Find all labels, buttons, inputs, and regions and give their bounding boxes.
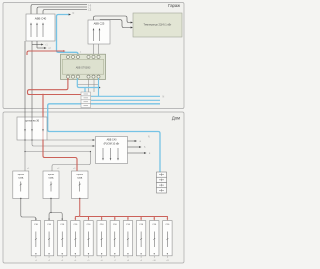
wire red drop 154.25 xyxy=(153,216,155,221)
wire red drop 114.8 xyxy=(114,216,116,221)
svg-text:щиток на 36: щиток на 36 xyxy=(25,120,40,123)
svg-text:N: N xyxy=(73,12,75,15)
wire tap arrow 2 xyxy=(37,41,51,50)
wire C to row1 xyxy=(21,199,37,221)
branch breaker row box 6 xyxy=(97,221,106,262)
wire blue bus 3 xyxy=(91,96,165,101)
wire red drop 141.1 xyxy=(140,216,142,221)
svg-text:6кВА: 6кВА xyxy=(18,176,24,179)
frame page 1 (Гараж) xyxy=(3,3,184,109)
branch breaker row box 4 xyxy=(71,221,80,262)
branch breaker row box 7 xyxy=(110,221,119,262)
УЗМ out arrow 2 xyxy=(128,146,147,149)
wire red switch output to house xyxy=(28,78,81,117)
breaker QF2 АВВ С25 xyxy=(88,20,110,44)
wire red E distribution xyxy=(75,199,169,221)
wire QF2 to heater line A xyxy=(94,16,134,24)
feeder breaker C xyxy=(13,171,29,199)
wire blue bus 2 xyxy=(91,95,160,97)
svg-text:6кВА: 6кВА xyxy=(48,176,54,179)
switch SA1 АВВ ОТ63Ф3 xyxy=(61,54,106,79)
svg-text:6кВА: 6кВА xyxy=(77,176,83,179)
branch breaker row box 1 xyxy=(31,221,40,262)
wire N blue from switch to top xyxy=(57,12,79,57)
branch breaker row box 10 xyxy=(150,221,159,262)
wire QF2 down to switch b xyxy=(98,44,100,56)
wire bus L3 xyxy=(43,9,92,14)
terminal block X2 xyxy=(157,172,167,193)
svg-text:АВВ С40: АВВ С40 xyxy=(35,17,47,21)
wire L red feed to switch xyxy=(27,50,82,55)
wire blue right stub to bus xyxy=(98,78,100,96)
wire bus L2 xyxy=(37,6,92,14)
feeder breaker D xyxy=(43,171,59,199)
wire house red L to feeder E xyxy=(42,139,77,171)
wire red drop 127.95 xyxy=(127,216,129,221)
panel box ЩР house xyxy=(17,117,47,140)
svg-text:АВВ С40: АВВ С40 xyxy=(107,139,118,142)
branch breaker row box 8 xyxy=(123,221,132,262)
svg-text:АВВ С25: АВВ С25 xyxy=(94,22,105,26)
wire D to rows 2-3 xyxy=(48,199,63,221)
wire tap arrow 1 xyxy=(32,44,48,47)
wire house N to УЗМ xyxy=(31,139,95,147)
УЗМ out arrow 1 xyxy=(128,140,142,143)
branch breaker row box 5 xyxy=(84,221,93,262)
wire house L1 to УЗМ xyxy=(47,139,95,141)
label above C xyxy=(27,168,30,170)
УЗМ out arrow 3 xyxy=(128,152,152,155)
heater load Температур xyxy=(133,13,182,37)
branch breaker row box 9 xyxy=(136,221,145,262)
wire feed down 2 xyxy=(31,41,33,117)
wire blue bus N with drop to house xyxy=(48,104,160,172)
wire QF2 down to switch a xyxy=(93,44,95,56)
branch breaker row box 3 xyxy=(58,221,67,262)
svg-text:щиток: щиток xyxy=(48,174,54,176)
branch breaker row box 11 xyxy=(163,221,172,262)
wire QF2 to heater line B xyxy=(100,20,133,29)
svg-text:АВВ ОТ63Ф3: АВВ ОТ63Ф3 xyxy=(76,66,91,69)
svg-text:Температур 22(4) 1 кВт: Температур 22(4) 1 кВт xyxy=(144,22,173,26)
terminal block X1 xyxy=(81,92,91,108)
wire bus L1 xyxy=(31,4,92,14)
frame page 2 (Дом) xyxy=(3,112,184,263)
wire blue jog below switch xyxy=(77,78,100,92)
wire red drop 101.65 xyxy=(101,216,103,221)
breaker QF1 АВВ С40 xyxy=(26,14,55,41)
svg-text:щиток: щиток xyxy=(77,174,83,176)
branch breaker row box 2 xyxy=(44,221,53,262)
wire red drop 88.5 xyxy=(88,216,90,221)
svg-text:(Р)УЗМ 10 кВт: (Р)УЗМ 10 кВт xyxy=(104,142,121,145)
svg-text:N: N xyxy=(163,96,165,99)
УЗМ box xyxy=(96,137,128,164)
svg-text:Дом: Дом xyxy=(172,115,180,120)
label above E xyxy=(73,168,76,170)
svg-text:щиток: щиток xyxy=(18,174,24,176)
feeder breaker E xyxy=(72,171,89,199)
label above D xyxy=(57,168,60,170)
wire feed down 1 xyxy=(24,41,26,117)
wire house PE distribution xyxy=(24,139,91,171)
svg-text:Гараж: Гараж xyxy=(168,3,180,8)
wire gray link below switch xyxy=(78,79,100,92)
